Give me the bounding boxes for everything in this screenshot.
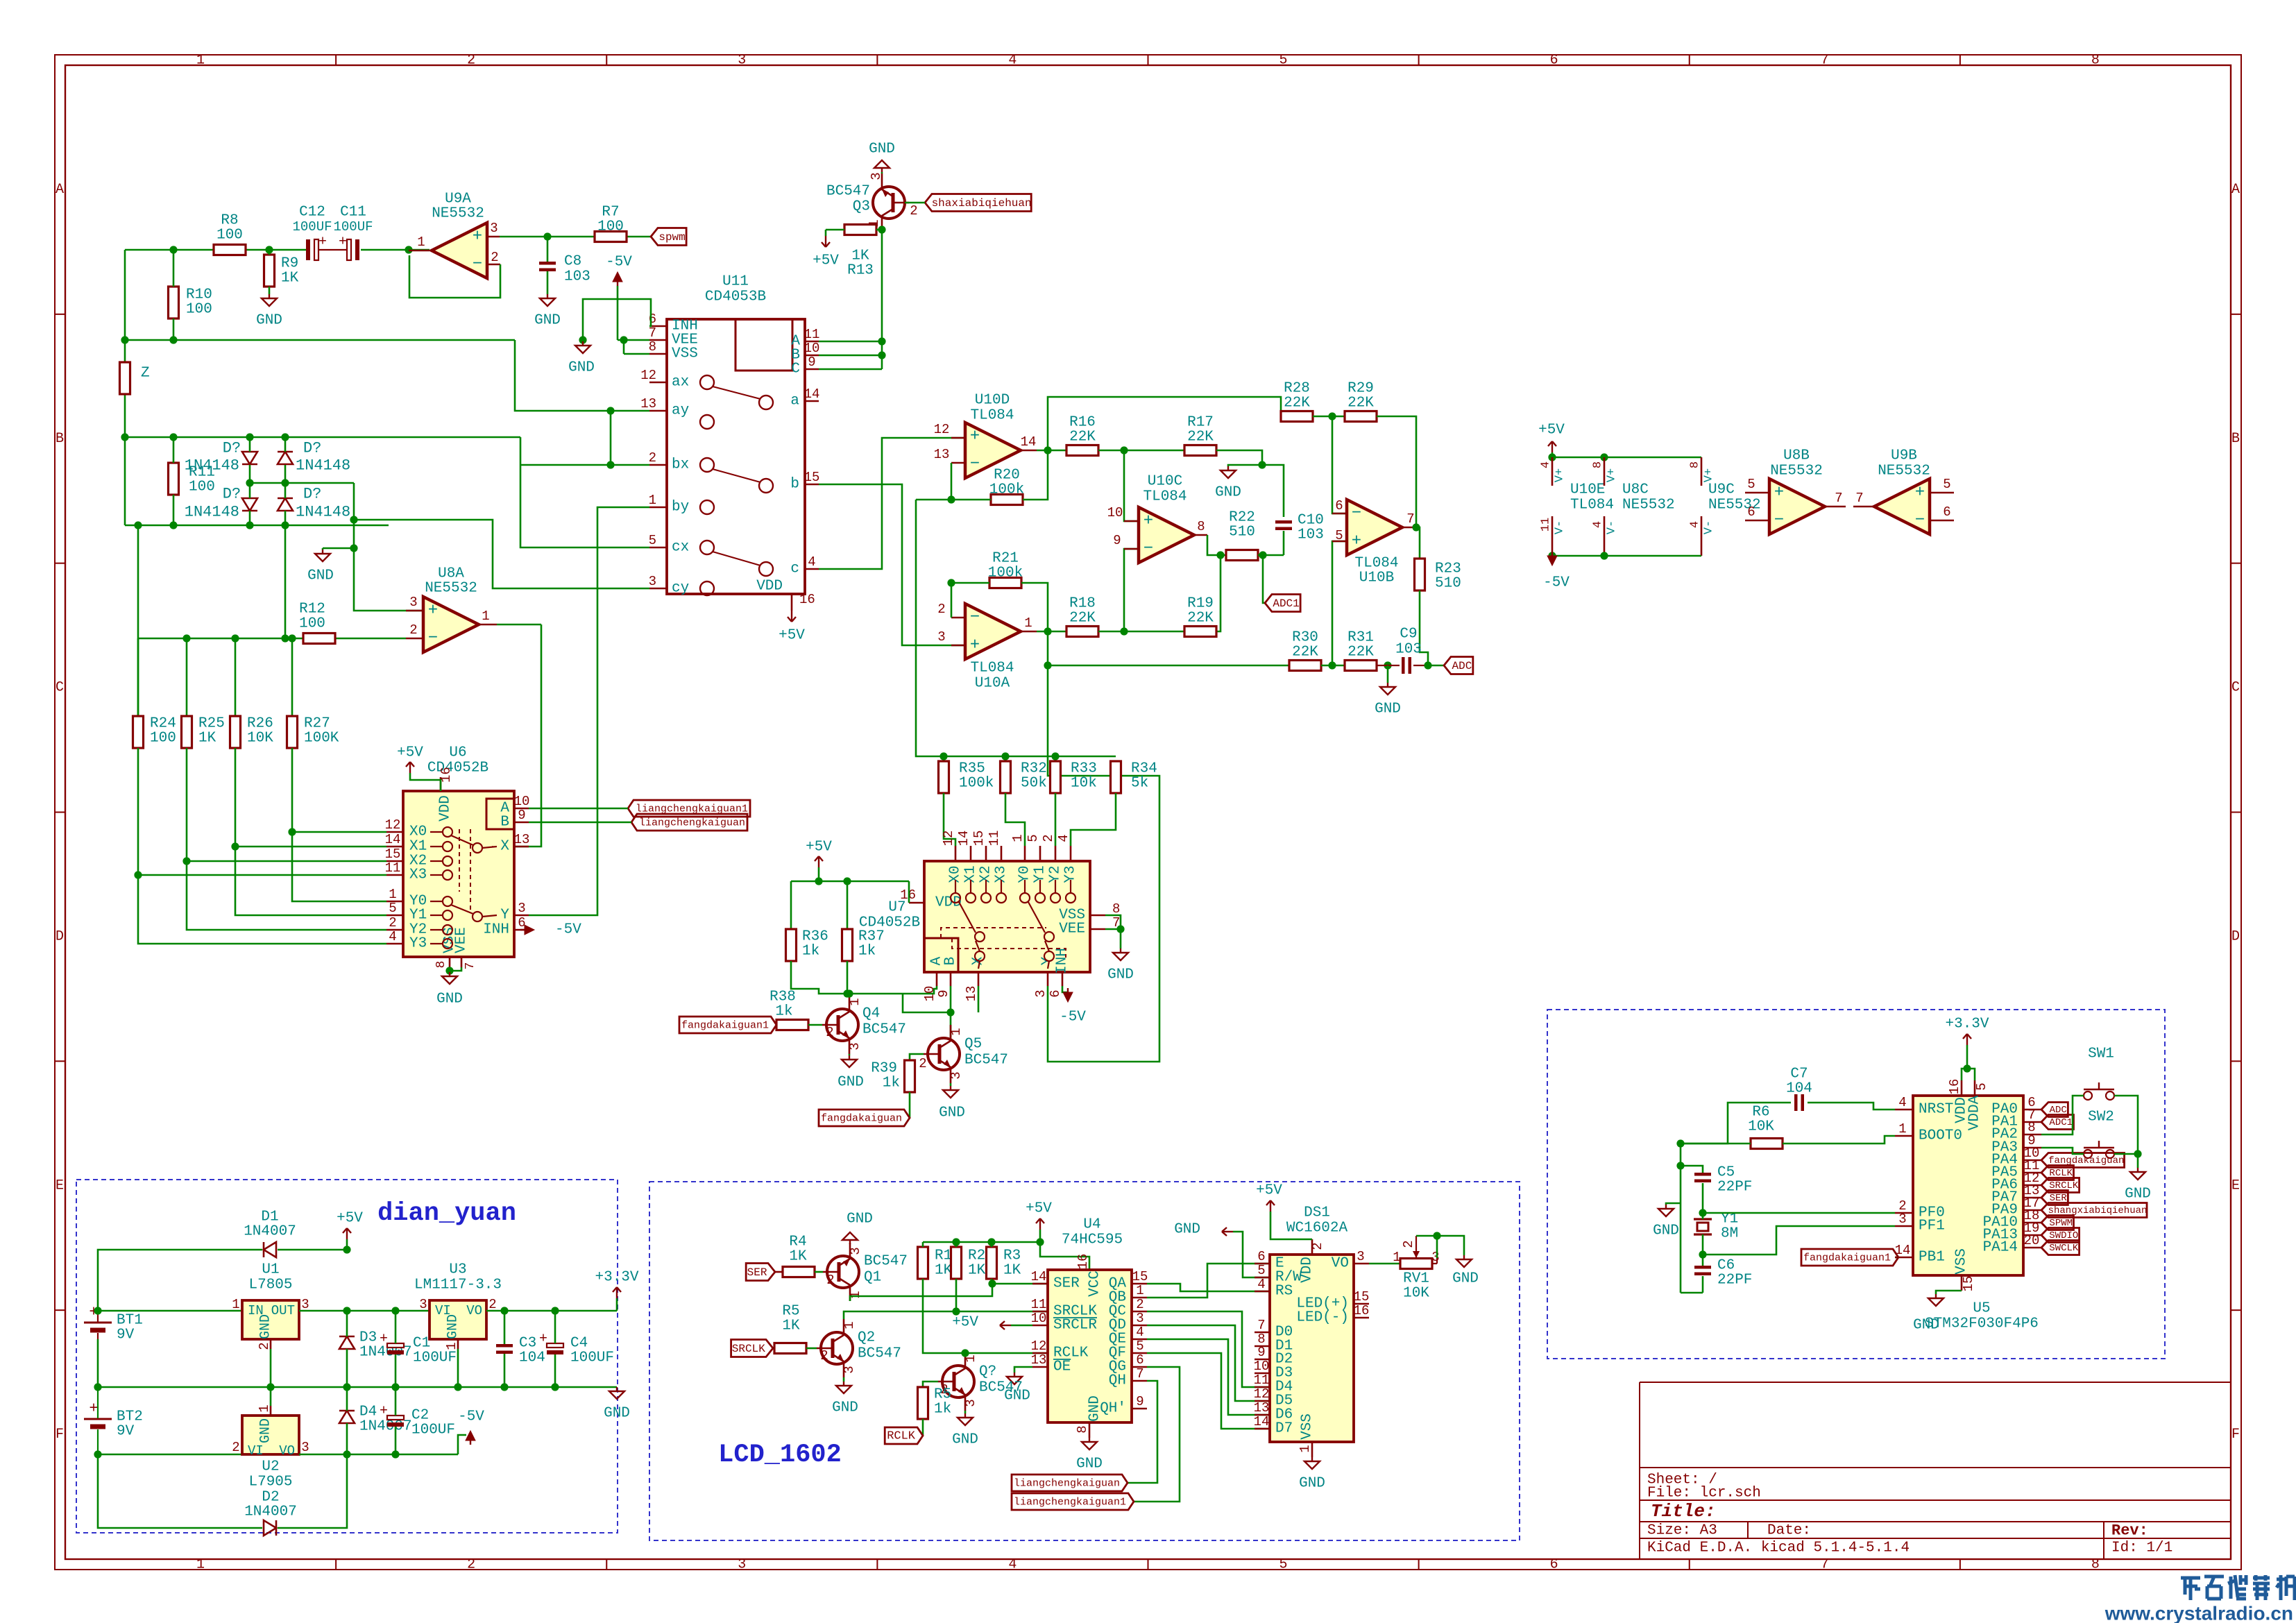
capacitor C3 104 bbox=[496, 1344, 513, 1348]
svg-text:U8B: U8B bbox=[1783, 448, 1810, 464]
svg-text:U3: U3 bbox=[449, 1262, 466, 1278]
wire Q2 collector to SRCLK row bbox=[844, 1311, 1048, 1319]
wire PA3 to SW2 bbox=[2041, 1148, 2084, 1154]
svg-text:R5: R5 bbox=[934, 1387, 951, 1403]
svg-text:15: 15 bbox=[971, 831, 987, 847]
ground below DS1 bbox=[1311, 1457, 1313, 1461]
IC U6 CD4052B body bbox=[403, 791, 514, 957]
svg-text:100: 100 bbox=[189, 479, 215, 495]
svg-text:Q5: Q5 bbox=[964, 1037, 982, 1053]
U5 VDD VDDA pins bbox=[1961, 1080, 1963, 1096]
capacitor C2 100UF bbox=[387, 1416, 404, 1420]
svg-text:14: 14 bbox=[1031, 1269, 1047, 1284]
wire bus to ay bx bbox=[515, 340, 649, 411]
U4 left pins bbox=[1032, 1283, 1048, 1285]
capacitor C5 22PF bbox=[1694, 1173, 1711, 1176]
wire Q1 collector to SER row bbox=[850, 1284, 992, 1301]
svg-text:SW1: SW1 bbox=[2088, 1046, 2114, 1062]
U5 left pins bbox=[1895, 1109, 1913, 1111]
svg-text:BT1: BT1 bbox=[117, 1313, 143, 1329]
capacitor C10 bbox=[1275, 520, 1292, 524]
svg-text:R38: R38 bbox=[769, 989, 796, 1005]
svg-text:R4: R4 bbox=[789, 1234, 806, 1250]
svg-text:BOOT0: BOOT0 bbox=[1919, 1128, 1962, 1144]
wire RV1 wiper to pin3 GND bbox=[1416, 1235, 1437, 1237]
wire BT2 to VI rail bbox=[98, 1454, 242, 1456]
hier label ADC1 bbox=[1265, 595, 1300, 612]
svg-text:13: 13 bbox=[514, 832, 530, 847]
svg-text:R3: R3 bbox=[1003, 1248, 1021, 1264]
resistor R6 bbox=[1751, 1139, 1783, 1149]
svg-text:100: 100 bbox=[597, 219, 624, 235]
DS1 VO pin3 bbox=[1354, 1263, 1369, 1265]
svg-text:3: 3 bbox=[649, 574, 656, 589]
svg-text:E: E bbox=[56, 1178, 64, 1193]
battery BT2 9V bbox=[84, 1418, 112, 1420]
resistor R18 bbox=[1066, 627, 1098, 637]
junction R21 left bbox=[947, 579, 955, 586]
svg-text:C4: C4 bbox=[570, 1336, 588, 1352]
svg-text:-5V: -5V bbox=[606, 255, 632, 271]
svg-text:GND: GND bbox=[1076, 1456, 1103, 1472]
svg-text:+5V: +5V bbox=[813, 253, 839, 269]
svg-text:D3: D3 bbox=[359, 1330, 377, 1346]
svg-text:4: 4 bbox=[1056, 834, 1071, 842]
power +5V at power section bbox=[346, 1228, 348, 1239]
svg-text:1K: 1K bbox=[789, 1249, 807, 1265]
resistor R11 bbox=[169, 463, 179, 495]
svg-text:SER: SER bbox=[1053, 1276, 1080, 1292]
wire QG to liangchengkaiguan1 bbox=[1134, 1367, 1180, 1502]
svg-text:6: 6 bbox=[1257, 1249, 1265, 1264]
junction dots OUT rail bbox=[343, 1307, 350, 1314]
svg-text:X: X bbox=[500, 839, 509, 855]
svg-text:14: 14 bbox=[1254, 1414, 1270, 1429]
svg-text:-5V: -5V bbox=[555, 922, 581, 938]
svg-text:A: A bbox=[56, 182, 64, 198]
svg-text:1: 1 bbox=[196, 53, 205, 69]
svg-text:GND: GND bbox=[1299, 1476, 1325, 1492]
svg-text:7: 7 bbox=[1406, 511, 1414, 527]
wire ADC1 drop bbox=[1263, 555, 1265, 603]
wire VO rail +3.3V bbox=[486, 1310, 617, 1312]
junction GND tap U8A bbox=[350, 544, 357, 552]
resistor R31 bbox=[1345, 661, 1377, 671]
svg-text:D?: D? bbox=[303, 486, 321, 503]
DS1 VDD pin2 bbox=[1311, 1239, 1313, 1255]
wire BT1 minus to gnd rail bbox=[97, 1339, 99, 1387]
op-amp U10C bbox=[1139, 507, 1194, 563]
svg-text:13: 13 bbox=[1031, 1352, 1047, 1368]
svg-text:R12: R12 bbox=[299, 602, 325, 618]
svg-text:9V: 9V bbox=[117, 1424, 135, 1440]
svg-text:5: 5 bbox=[389, 901, 396, 916]
svg-text:1N4148: 1N4148 bbox=[296, 504, 350, 521]
diode D1 1N4007 bbox=[264, 1242, 276, 1257]
wire net input row y360 bbox=[125, 249, 214, 251]
svg-text:D1: D1 bbox=[261, 1209, 278, 1225]
svg-text:KiCad E.D.A. kicad 5.1.4-5.1.: KiCad E.D.A. kicad 5.1.4-5.1.4 bbox=[1647, 1540, 1910, 1556]
ground below Q2 bbox=[843, 1377, 845, 1382]
wire R23 to C9 node bbox=[1420, 590, 1428, 665]
svg-text:V-: V- bbox=[1606, 520, 1619, 534]
svg-text:NRST: NRST bbox=[1919, 1102, 1953, 1118]
wire VEE -5V bbox=[618, 339, 649, 341]
ground below Q? bbox=[964, 1411, 967, 1413]
svg-text:100: 100 bbox=[299, 616, 325, 632]
svg-text:8: 8 bbox=[2091, 1557, 2100, 1573]
svg-text:12: 12 bbox=[934, 422, 950, 437]
svg-text:7: 7 bbox=[1855, 491, 1863, 506]
ground at power rail bbox=[616, 1387, 618, 1391]
wire Q5 base R39 bbox=[910, 1054, 924, 1062]
wire R1 to RCLK row bbox=[923, 1279, 1048, 1353]
svg-text:1K: 1K bbox=[851, 248, 869, 264]
power +5V at R13 bbox=[826, 229, 844, 231]
svg-text:−: − bbox=[473, 255, 482, 274]
svg-text:100: 100 bbox=[150, 731, 176, 747]
svg-text:GND: GND bbox=[1087, 1395, 1103, 1422]
svg-text:GND: GND bbox=[1653, 1223, 1679, 1239]
hier label SRCLK bbox=[731, 1340, 773, 1357]
svg-text:7: 7 bbox=[1136, 1366, 1143, 1382]
svg-text:VI: VI bbox=[248, 1443, 264, 1459]
power +3.3V at U5 bbox=[1966, 1034, 1968, 1045]
svg-text:U2: U2 bbox=[262, 1459, 279, 1475]
junction C9 right bbox=[1424, 661, 1431, 669]
wire R35 bus from R20 node bbox=[916, 499, 951, 501]
junction dots +5V bus bbox=[815, 877, 822, 885]
svg-text:2: 2 bbox=[937, 602, 945, 617]
resistor R20 bbox=[991, 495, 1023, 505]
svg-text:R7: R7 bbox=[602, 205, 619, 221]
svg-text:22K: 22K bbox=[1187, 430, 1214, 445]
power -5V at power section bbox=[466, 1431, 475, 1441]
svg-text:7: 7 bbox=[1257, 1318, 1265, 1333]
svg-text:2: 2 bbox=[409, 622, 417, 638]
svg-text:U9A: U9A bbox=[445, 192, 471, 207]
svg-text:U10C: U10C bbox=[1148, 474, 1182, 490]
wire R2 to SRCLK row bbox=[955, 1279, 958, 1311]
transistor Q1 BC547 bbox=[827, 1256, 859, 1288]
svg-text:4: 4 bbox=[389, 929, 396, 944]
wire PA2 to SW1 bbox=[2041, 1096, 2084, 1135]
svg-text:R33: R33 bbox=[1071, 761, 1097, 777]
wire U11 c to U10D bbox=[819, 438, 965, 569]
svg-text:3: 3 bbox=[518, 901, 525, 916]
svg-text:Y3: Y3 bbox=[409, 936, 427, 952]
junction B Q5 bbox=[946, 1008, 954, 1016]
svg-text:15: 15 bbox=[804, 470, 820, 485]
ground below U6 bbox=[450, 967, 461, 971]
junction U10B out bbox=[1412, 523, 1420, 531]
svg-text:9: 9 bbox=[808, 355, 815, 370]
svg-text:D?: D? bbox=[223, 440, 241, 457]
svg-text:22PF: 22PF bbox=[1717, 1273, 1752, 1289]
watermark crystalradio logo bbox=[2181, 1577, 2200, 1580]
ground above Q3 bbox=[881, 172, 883, 173]
hier labels at U5 right bbox=[2041, 1103, 2068, 1117]
power +5V at U6 bbox=[409, 762, 411, 773]
svg-text:16: 16 bbox=[1075, 1254, 1091, 1270]
svg-text:R30: R30 bbox=[1292, 630, 1318, 646]
svg-text:−: − bbox=[1915, 511, 1925, 530]
svg-text:+5V: +5V bbox=[952, 1315, 978, 1331]
wire QH to liangchengkaiguan bbox=[1128, 1381, 1157, 1483]
resistor R17 bbox=[1184, 445, 1216, 456]
svg-text:VO: VO bbox=[279, 1443, 295, 1459]
svg-text:TL084: TL084 bbox=[970, 661, 1014, 677]
svg-text:74HC595: 74HC595 bbox=[1062, 1232, 1123, 1248]
wire R17 to C10 GND node bbox=[1216, 450, 1262, 465]
svg-text:GND: GND bbox=[436, 992, 463, 1008]
U7 top pins bbox=[955, 846, 957, 861]
U7 sub box AB bbox=[924, 938, 958, 972]
IC U7 CD4052B body bbox=[924, 861, 1090, 972]
wire QD to D5 bbox=[1147, 1325, 1270, 1401]
ground at SW2 bbox=[2137, 1154, 2139, 1168]
svg-text:VCC: VCC bbox=[1087, 1271, 1103, 1297]
svg-text:INH: INH bbox=[483, 922, 509, 938]
U11 right pins abc bbox=[805, 400, 819, 402]
svg-text:510: 510 bbox=[1435, 576, 1461, 592]
svg-text:bx: bx bbox=[672, 457, 689, 473]
ground at U7 bbox=[1120, 929, 1122, 949]
svg-text:V-: V- bbox=[1703, 520, 1716, 534]
svg-text:3: 3 bbox=[937, 629, 945, 645]
power unit U10E TL084 bbox=[1551, 457, 1554, 486]
svg-text:R22: R22 bbox=[1229, 510, 1255, 526]
svg-text:3: 3 bbox=[869, 172, 884, 180]
svg-text:6: 6 bbox=[1136, 1352, 1143, 1368]
svg-text:15: 15 bbox=[1354, 1289, 1370, 1305]
svg-text:7: 7 bbox=[1821, 53, 1829, 69]
junction gnd bus top bbox=[1676, 1139, 1684, 1147]
svg-text:1N4148: 1N4148 bbox=[185, 504, 239, 521]
U11 INH VEE VSS wiring bbox=[583, 299, 651, 340]
svg-text:U4: U4 bbox=[1083, 1217, 1100, 1233]
IC U5 STM32F030F4P6 body bbox=[1913, 1096, 2023, 1275]
svg-text:V+: V+ bbox=[1554, 468, 1567, 482]
svg-text:D: D bbox=[56, 928, 64, 944]
svg-text:ADC1: ADC1 bbox=[2049, 1117, 2073, 1128]
svg-text:A: A bbox=[2231, 182, 2240, 198]
svg-text:GND: GND bbox=[1375, 702, 1401, 717]
svg-text:U5: U5 bbox=[1973, 1301, 1990, 1317]
junction R28 R29 bbox=[1328, 412, 1336, 420]
svg-text:4: 4 bbox=[1008, 1557, 1017, 1573]
svg-text:−: − bbox=[970, 455, 980, 474]
svg-text:1K: 1K bbox=[935, 1263, 953, 1279]
svg-text:C: C bbox=[791, 362, 800, 377]
svg-text:R39: R39 bbox=[871, 1061, 897, 1077]
DS1 LED pins bbox=[1354, 1303, 1369, 1305]
svg-text:103: 103 bbox=[1395, 642, 1422, 658]
svg-text:+5V: +5V bbox=[1026, 1201, 1052, 1217]
svg-text:3: 3 bbox=[409, 595, 417, 610]
svg-text:104: 104 bbox=[519, 1350, 545, 1366]
svg-text:OE: OE bbox=[1053, 1359, 1071, 1375]
junction R30 R31 bbox=[1328, 661, 1336, 669]
svg-text:+5V: +5V bbox=[806, 840, 832, 856]
wire U10A out down to Y switch bbox=[1048, 631, 1159, 1062]
svg-text:10: 10 bbox=[1107, 505, 1123, 520]
svg-text:SW2: SW2 bbox=[2088, 1110, 2114, 1125]
wire R6 to BOOT0 bbox=[1783, 1136, 1895, 1144]
svg-text:CD4052B: CD4052B bbox=[427, 760, 488, 776]
wire top bus to cx bbox=[520, 437, 649, 547]
svg-text:R34: R34 bbox=[1131, 761, 1157, 777]
svg-text:U8A: U8A bbox=[438, 566, 464, 582]
svg-text:Z: Z bbox=[141, 366, 150, 382]
svg-text:OUT: OUT bbox=[271, 1303, 295, 1318]
svg-text:5: 5 bbox=[1943, 477, 1950, 492]
wire INH -5V bbox=[1062, 986, 1068, 992]
svg-text:3: 3 bbox=[738, 53, 746, 69]
svg-text:+3.3V: +3.3V bbox=[595, 1270, 638, 1286]
svg-text:+: + bbox=[1143, 512, 1153, 531]
svg-text:11: 11 bbox=[987, 831, 1002, 847]
resistor R5 vertical bbox=[918, 1387, 928, 1419]
resistor R3 bbox=[987, 1247, 997, 1279]
wire U10A feedback R21 bbox=[951, 583, 953, 618]
op-amp U10D bbox=[965, 423, 1021, 478]
wire R29 to U10B out bbox=[1377, 416, 1416, 527]
resistor R8 bbox=[214, 245, 246, 255]
junction +5V D1 bbox=[343, 1246, 350, 1253]
svg-text:V-: V- bbox=[1554, 520, 1567, 534]
svg-text:100UF: 100UF bbox=[292, 219, 332, 235]
svg-text:1K: 1K bbox=[198, 731, 216, 747]
junction R22 right bbox=[1259, 551, 1266, 559]
svg-text:4: 4 bbox=[1592, 521, 1605, 528]
wire D2 loop bbox=[98, 1454, 262, 1528]
svg-text:5k: 5k bbox=[1131, 776, 1148, 792]
svg-text:2: 2 bbox=[491, 250, 498, 265]
svg-text:1N4007: 1N4007 bbox=[244, 1504, 297, 1520]
wire QF to D7 bbox=[1147, 1353, 1270, 1429]
svg-text:a: a bbox=[790, 393, 799, 409]
svg-text:2: 2 bbox=[1041, 834, 1056, 842]
global label fangdakaiguan bbox=[819, 1110, 910, 1126]
svg-text:2: 2 bbox=[820, 1348, 828, 1363]
svg-text:100UF: 100UF bbox=[413, 1350, 457, 1366]
svg-text:22K: 22K bbox=[1347, 396, 1374, 411]
svg-text:R35: R35 bbox=[959, 761, 985, 777]
svg-text:16: 16 bbox=[799, 592, 815, 607]
svg-text:C: C bbox=[56, 680, 64, 696]
junction Q3 collector bbox=[878, 226, 885, 233]
ground below U4 bbox=[1089, 1438, 1090, 1442]
junction ay bx bbox=[606, 407, 614, 414]
svg-text:C8: C8 bbox=[564, 254, 581, 270]
svg-text:F: F bbox=[2231, 1427, 2240, 1443]
U6 INH -5V bbox=[525, 925, 534, 935]
svg-text:C2: C2 bbox=[411, 1408, 429, 1424]
svg-text:Size: A3: Size: A3 bbox=[1647, 1523, 1717, 1539]
svg-text:12: 12 bbox=[1254, 1386, 1270, 1402]
svg-text:8: 8 bbox=[2091, 53, 2100, 69]
wire C6 bottom to gnd bus bbox=[1681, 1292, 1703, 1294]
capacitor C4 100UF bbox=[547, 1343, 563, 1348]
svg-text:4: 4 bbox=[1540, 461, 1553, 468]
svg-text:4: 4 bbox=[1257, 1277, 1265, 1292]
resistor R35 bbox=[939, 761, 949, 793]
transistor Q5 BC547 bbox=[928, 1038, 960, 1070]
svg-text:22K: 22K bbox=[1187, 611, 1214, 627]
resistor R22 bbox=[1226, 550, 1258, 561]
diode D3 1N4007 bbox=[339, 1336, 355, 1349]
svg-text:F: F bbox=[56, 1427, 64, 1443]
svg-text:VDD: VDD bbox=[1300, 1257, 1316, 1283]
transistor Q? BC547 bbox=[942, 1366, 974, 1397]
wire U9A feedback bbox=[409, 255, 500, 298]
wire x411 column to bus y920 bbox=[284, 525, 287, 638]
svg-text:D2: D2 bbox=[262, 1490, 279, 1506]
svg-text:U9B: U9B bbox=[1891, 448, 1917, 464]
svg-text:2: 2 bbox=[826, 1025, 833, 1040]
svg-text:R37: R37 bbox=[858, 929, 885, 945]
svg-text:50k: 50k bbox=[1021, 776, 1047, 792]
svg-text:+5V: +5V bbox=[1256, 1183, 1282, 1199]
wire rail to R30 bbox=[1048, 665, 1289, 667]
transistor Q2 BC547 bbox=[821, 1332, 853, 1364]
svg-text:R29: R29 bbox=[1347, 381, 1374, 397]
svg-text:4: 4 bbox=[808, 554, 815, 570]
svg-text:5: 5 bbox=[1974, 1082, 1989, 1090]
op-amp U8B bbox=[1769, 479, 1825, 534]
svg-text:R24: R24 bbox=[150, 716, 176, 732]
svg-text:10K: 10K bbox=[1403, 1286, 1429, 1302]
junction PF0 PF1 bbox=[1699, 1209, 1706, 1216]
svg-text:Y: Y bbox=[500, 908, 509, 924]
transistor Q4 BC547 bbox=[826, 1009, 858, 1041]
svg-text:X0: X0 bbox=[409, 824, 427, 840]
svg-text:4: 4 bbox=[1136, 1325, 1143, 1340]
global label fangdakaiguan1 bbox=[679, 1017, 776, 1033]
svg-text:3: 3 bbox=[490, 221, 498, 236]
resistor R32 bbox=[1001, 761, 1011, 793]
power +5V at U7 bbox=[818, 856, 819, 867]
wire PF1 bbox=[1703, 1226, 1895, 1255]
wire U6 Y to U11 by bbox=[529, 507, 649, 915]
svg-text:12: 12 bbox=[1031, 1339, 1047, 1354]
svg-text:1K: 1K bbox=[281, 271, 299, 287]
svg-text:7: 7 bbox=[464, 962, 477, 970]
svg-text:100k: 100k bbox=[988, 566, 1023, 581]
svg-text:C11: C11 bbox=[340, 205, 366, 221]
resistor R1 bbox=[918, 1247, 928, 1279]
IC U3 LM1117-3.3 bbox=[430, 1300, 486, 1339]
svg-text:File: lcr.sch: File: lcr.sch bbox=[1647, 1486, 1761, 1502]
wire U10D inv feedback bbox=[951, 463, 953, 500]
svg-text:10: 10 bbox=[804, 341, 820, 356]
svg-text:R20: R20 bbox=[994, 468, 1020, 484]
potentiometer RV1 bbox=[1400, 1259, 1432, 1269]
global label liangchengkaiguan1 at U6 bbox=[628, 800, 750, 817]
svg-text:1N4007: 1N4007 bbox=[359, 1419, 412, 1435]
svg-text:TL084: TL084 bbox=[1143, 489, 1187, 505]
U6 sub box AB bbox=[486, 799, 514, 829]
resistor R34 bbox=[1111, 761, 1121, 793]
svg-text:Date:: Date: bbox=[1767, 1523, 1811, 1539]
diode D4 1N4007 bbox=[339, 1411, 355, 1423]
svg-text:LM1117-3.3: LM1117-3.3 bbox=[414, 1277, 502, 1293]
wire PF0 bbox=[1703, 1212, 1895, 1214]
op-amp U8A pins bbox=[406, 610, 423, 612]
svg-text:13: 13 bbox=[934, 447, 950, 462]
svg-text:BC547: BC547 bbox=[826, 184, 870, 200]
